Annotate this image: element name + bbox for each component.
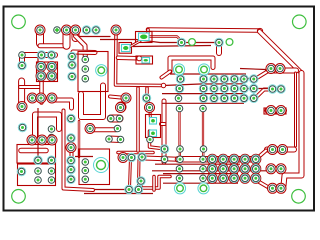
pad P1 [35,25,45,35]
pad P75 [147,136,154,143]
wire diag C4 [256,151,266,160]
wire v d2b [137,158,141,188]
pad P13 [18,61,27,70]
pad P106 [82,176,89,183]
pad P99 [35,177,42,184]
pad P28 [116,102,126,112]
wire capsule into row [144,158,178,159]
wire v202 [202,112,204,146]
wire bus y93 [162,93,244,95]
pad P30 [176,75,185,84]
pad P96 [17,167,26,176]
wire y189 line [95,189,128,191]
wire v179b [179,150,181,158]
pad P53 [266,64,276,74]
pad P41 [230,84,239,93]
pad P57 [17,102,27,112]
pad P77 [127,153,136,162]
wire diag B4a [256,71,269,79]
pad P2 [54,27,61,34]
wire y36 line [80,36,111,38]
pad P123 [276,164,286,174]
pad P54 [275,64,285,74]
pad P102 [67,165,76,174]
wire bus y183 [163,182,238,184]
pad P17 [47,71,57,81]
wire pads diag B2 [110,97,126,108]
wire h156 [75,156,93,158]
pad P113 [218,164,228,174]
component outline U3 [17,145,56,164]
wire v to pad22-65 [19,55,25,66]
pad P5 [82,26,91,35]
wire diag x147 [147,98,150,108]
pad P45 [199,94,208,103]
wire y45 line [133,46,211,47]
wire bottom layer stub [222,156,224,183]
wire bus y74 [170,73,246,75]
pad P47 [220,94,229,103]
wire v79 [78,121,80,157]
wire pad116 net [116,33,164,86]
wire bottom layer stub [233,156,235,183]
pad P69 [108,115,115,122]
wire bottom layer stub [243,75,245,103]
pad via big A [173,64,184,75]
wire C1 Z [35,115,59,138]
pad P7 [111,25,121,35]
wire bottom layer stub [233,75,235,103]
smd pad S2 [142,58,150,64]
wire v to smd [148,108,152,117]
pad P51 [176,105,183,112]
wire bus y84 [164,84,245,86]
wire stub below pad219 [216,46,222,53]
component outline U4 [18,164,56,186]
pad P84 [200,156,207,163]
wire v202b [202,150,204,158]
pad P12 [47,51,56,60]
pad P98 [48,168,55,175]
pad via big D [198,183,209,194]
smd pad S5 [122,45,131,52]
wire pad40 stub [36,30,44,44]
pad P118 [218,173,228,183]
wire h in box1 [21,148,46,154]
smd pad S3 [150,118,157,125]
pad via big B [198,64,209,75]
pad P101 [67,156,76,165]
pad ring B [226,39,233,46]
pad P11 [37,51,46,60]
pad P22 [68,61,77,70]
pad P103 [67,175,76,184]
pad P71 [85,124,95,134]
wire diag B3 left [162,72,171,78]
pad P93 [251,154,261,164]
pad P126 [268,183,278,193]
pad P34 [230,75,239,84]
wire bus y103 [162,102,244,104]
wire v x154 [152,177,156,191]
pad trimmer top [96,65,107,76]
wire top capsule B3 [170,58,213,72]
wire diag B4b [255,90,270,99]
component outline trimmer R1 [78,52,108,92]
wire long row capsule y159.3 [178,156,258,163]
wire bottom layer stub [211,156,213,183]
pad P25 [82,66,89,73]
wire v179 [178,112,180,146]
pad P37 [175,84,184,93]
pad ring A [189,39,196,46]
pad P91 [278,145,288,155]
wire h seg y52 [73,50,95,56]
pad P114 [229,164,239,174]
pad P125 [251,173,261,183]
pad P65 [37,135,47,145]
pad P66 [47,135,57,145]
pad P122 [266,164,276,174]
pad P70 [116,115,123,122]
pad P35 [240,75,249,84]
wire right edge bus [284,73,302,186]
wire v x165 C3 [162,101,167,162]
pad P109 [137,177,146,186]
pad P73 [106,136,113,143]
wire pad66 stub [63,30,71,46]
pad P81 [177,146,184,153]
component outline smd R4 [119,43,132,54]
pad P50 [249,94,258,103]
pad P121 [251,164,261,174]
pad P23 [68,72,77,81]
wire bottom layer stub [223,75,225,103]
pad P115 [176,175,183,182]
wire link y78 [245,78,256,80]
pad P26 [82,75,89,82]
pad P116 [200,175,207,182]
pad P31 [199,75,208,84]
pad P9 [215,38,224,47]
wire bus y170 [152,170,279,172]
wire L y100 [52,100,72,108]
component outline smd R3 [136,56,153,64]
wire long v x64 [64,111,94,191]
pad P19 [36,93,46,103]
wire v thin right [294,73,297,146]
pad P107 [125,185,134,194]
component outline hdr [264,108,286,114]
wire v left [18,81,25,107]
pad P49 [240,94,249,103]
smd pad S1 [139,33,150,41]
wire h y152 [118,151,153,155]
wire v x41 [39,82,44,103]
wire diag D4 [256,180,270,188]
pad P97 [35,168,42,175]
wire bottom layer stub [253,75,255,103]
pad P78 [138,153,147,162]
pad P21 [68,52,77,61]
wire bottom layer stub [203,75,205,103]
component outline trimmer R2 [79,149,110,185]
wire capsule y118 [111,115,120,123]
wire bottom layer stub [180,75,182,83]
wire top bus horizontal [148,30,260,31]
wire v x73 [70,144,74,158]
wire v d2a [130,158,131,188]
wire h seg y45.8 [40,43,67,48]
pad P61 [66,143,76,153]
wire stub to smd1 [146,30,150,35]
pad P105 [82,167,89,174]
pad P85 [207,154,217,164]
wire capsule y55 [22,52,56,58]
pad P120 [240,164,250,174]
pad P36 [249,75,258,84]
wire v x147 [145,88,149,97]
pad P87 [229,154,239,164]
wire h y110 C4 [268,108,285,114]
component outline U2 [37,62,58,82]
wire pad75 stub [72,30,80,38]
pad P59 [48,126,55,133]
pad P62 [67,114,76,123]
pad P111 [200,166,207,173]
pad P15 [47,62,57,72]
wire to pad181 [147,37,182,42]
pad P55 [268,85,277,94]
pad P104 [82,159,89,166]
pad P14 [36,62,46,72]
pad P42 [240,84,249,93]
pad P29 [142,94,151,103]
wire h y70 B4 [268,68,296,74]
mounting hole [12,15,26,29]
pad P124 [240,173,250,183]
wire bottom layer stub [255,156,257,183]
pad via big C [174,183,185,194]
wire h y87 [20,85,42,89]
pad P95 [47,156,56,165]
pad P58 [18,123,27,132]
pad P56 [277,85,286,94]
wire h seg y59 [118,56,138,61]
pad P68 [145,103,155,113]
pad P112 [207,164,217,174]
wire bus y173 [163,173,238,175]
pad P67 [116,103,126,113]
pad P8 [177,38,186,47]
pad P76 [118,153,128,163]
pad P86 [218,154,228,164]
junction [137,56,142,61]
pad P46 [210,94,219,103]
pad P32 [210,75,219,84]
wire S trace D3 [141,177,170,189]
wire h y148 C4 [267,147,294,153]
pad P16 [36,71,46,81]
wire bus y164 [155,163,240,165]
pad P119 [229,173,239,183]
pad P82 [177,156,184,163]
pad P127 [276,183,286,193]
junction [257,28,262,33]
wire y78 line [240,78,256,80]
pad P3 [62,25,72,35]
smd pad S4 [150,130,157,137]
wire y68 line [240,69,266,70]
wire v x138 [136,88,140,151]
wire U trace [81,86,103,118]
wire top bus diagonal [260,32,302,74]
pad P100 [48,177,55,184]
pad P48 [230,94,239,103]
pad P43 [249,84,258,93]
wire h y129 [94,127,116,132]
pad P60 [48,134,55,141]
wire hook x165 [161,122,165,126]
pad P38 [199,84,208,93]
pad trimmer bottom [94,158,109,173]
pad P94 [34,156,43,165]
wire diag smd1-smd2 [129,41,141,48]
wire y42 line [100,40,215,43]
pad P64 [27,135,37,145]
pad P18 [27,93,37,103]
component outline smd R5 [136,32,153,43]
pad P6 [92,26,101,35]
junction [161,83,165,87]
pad P33 [220,75,229,84]
mounting hole [292,190,306,204]
wire bottom layer stub [213,75,215,103]
pad P10 [19,52,26,59]
wire v38 bottom [37,108,39,163]
pad P83 [200,146,207,153]
wire v38 top [37,56,39,63]
pad P117 [207,173,217,183]
pad P80 [161,156,168,163]
pad P90 [268,145,278,155]
pad P24 [82,56,89,63]
pad P4 [71,25,81,35]
pad P79 [160,145,169,154]
component outline smd C2 [146,115,161,138]
pad P89 [276,106,286,116]
pad P40 [220,84,229,93]
pad P92 [240,154,250,164]
wire link y88 [245,88,270,90]
mounting hole [12,190,26,204]
pad P72 [114,125,121,132]
wire capsule y139 [109,136,121,144]
wire S trace C3a [150,131,163,149]
pad P74 [117,136,124,143]
pad P52 [200,105,207,112]
pad P88 [266,106,276,116]
pad P27 [121,93,131,103]
pad P39 [210,84,219,93]
pad P20 [47,93,57,103]
pad P110 [176,166,183,173]
wire y193 line [84,193,153,195]
pad P63 [67,134,76,143]
pad P108 [134,185,143,194]
pad P44 [175,95,182,102]
mounting hole [293,15,307,29]
wire bottom layer stub [244,156,246,183]
wire diag to col [76,36,86,57]
